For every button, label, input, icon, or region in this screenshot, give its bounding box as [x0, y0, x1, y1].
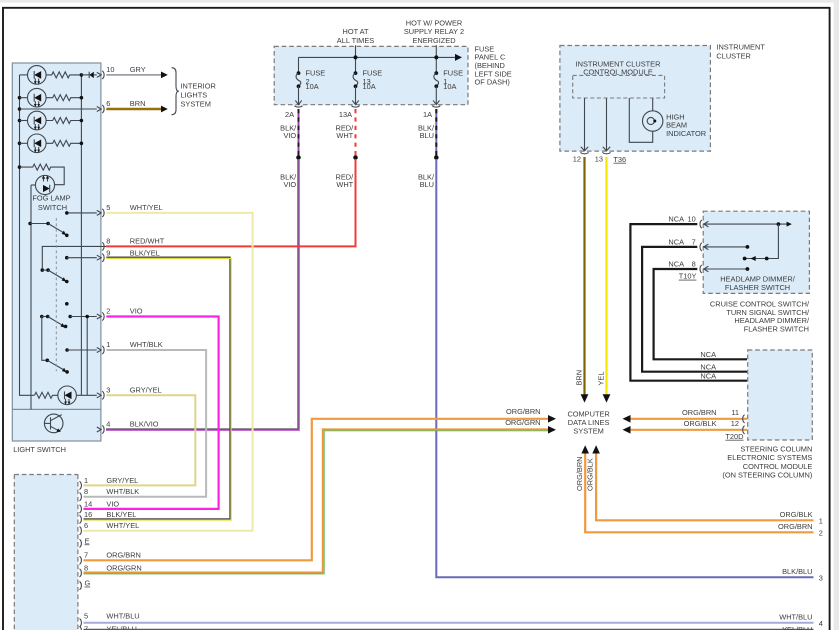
label INSTRUMENT CLUSTER (outside)	[716, 43, 765, 61]
svg-text:WHT/BLK: WHT/BLK	[106, 487, 139, 496]
arrow BRN to interior lights	[161, 106, 168, 113]
svg-text:8: 8	[84, 563, 88, 572]
wire BLK/BLU dashed from fuse 1	[418, 109, 436, 156]
page chrome top strip	[0, 0, 839, 3]
node row1/right rail	[80, 73, 84, 77]
svg-text:CLUSTER: CLUSTER	[716, 52, 751, 61]
connector E	[80, 536, 90, 547]
connector pin 3	[102, 385, 162, 399]
wire YEL from cluster	[597, 157, 611, 403]
wire RED/WHT solid down to light switch pin 8	[106, 159, 356, 246]
svg-text:T36: T36	[613, 155, 626, 164]
fog lamp LED	[31, 175, 55, 194]
wire BLK/VIO solid down to light switch pin 4	[106, 159, 299, 430]
fuse 1 10A	[433, 68, 463, 104]
svg-text:T20D: T20D	[725, 432, 743, 441]
svg-text:5: 5	[84, 612, 88, 621]
connector pin 7 YEL/BLU	[80, 625, 137, 630]
svg-text:BLU: BLU	[420, 180, 434, 189]
svg-text:FLASHER SWITCH: FLASHER SWITCH	[744, 325, 809, 334]
svg-text:16: 16	[84, 510, 92, 519]
resistor R6 pin3 row	[35, 392, 58, 398]
wire BLK/VIO dashed from fuse 2	[280, 109, 298, 156]
svg-text:6: 6	[106, 99, 110, 108]
node rail fog resistor	[18, 165, 22, 169]
junction node bus/fuse13	[354, 55, 358, 59]
svg-text:ENERGIZED: ENERGIZED	[412, 36, 455, 45]
svg-text:VIO: VIO	[283, 131, 296, 140]
connector pin 8 WHT/BLK	[80, 487, 140, 501]
wire ORG/BRN up arrow	[575, 445, 589, 532]
svg-text:BLK/YEL: BLK/YEL	[130, 248, 160, 257]
wire BRN	[106, 108, 161, 111]
svg-text:3: 3	[106, 385, 110, 394]
wire GRY/YEL	[84, 395, 196, 485]
connector pin 9	[102, 248, 160, 261]
connector pin 5 WHT/BLU	[80, 612, 140, 627]
svg-text:NCA: NCA	[700, 362, 716, 371]
wire pin2 row	[68, 314, 101, 319]
svg-text:VIO: VIO	[283, 180, 296, 189]
light switch box	[12, 63, 101, 441]
wire WHT/YEL	[84, 213, 253, 531]
wire cluster pin 13	[603, 98, 610, 151]
connector pin 6	[102, 99, 145, 113]
svg-text:HOT W/ POWER: HOT W/ POWER	[406, 18, 463, 27]
switch SW-B	[41, 268, 69, 283]
svg-text:8: 8	[84, 487, 88, 496]
label HOT W/ POWER SUPPLY RELAY 2 ENERGIZED	[404, 18, 464, 44]
svg-text:NCA: NCA	[700, 371, 716, 380]
switch internals pin8 row	[703, 266, 749, 272]
svg-text:ORG/BRN: ORG/BRN	[575, 457, 584, 492]
illumination LED L2	[20, 88, 47, 107]
svg-text:2: 2	[819, 528, 823, 537]
splice node on BLK/VIO	[296, 155, 301, 160]
svg-text:10: 10	[687, 215, 695, 224]
wire BRN from cluster	[575, 157, 589, 403]
switch SW-A fog	[28, 222, 68, 237]
left rail of light switch	[20, 75, 35, 395]
svg-text:BRN: BRN	[575, 370, 584, 386]
wire ORG/BLK right exit 1	[596, 510, 823, 525]
instrument cluster box	[560, 46, 711, 152]
connector pin 1	[102, 340, 163, 354]
connector pin 8	[102, 236, 165, 250]
wire WHT/BLU	[84, 613, 823, 628]
resistor R4	[46, 140, 81, 146]
wire pin9 row	[65, 255, 101, 260]
svg-text:9: 9	[106, 248, 110, 257]
svg-text:E: E	[85, 536, 90, 545]
svg-text:ORG/BLK: ORG/BLK	[684, 419, 717, 428]
wire ORG/BRN pin 11	[623, 408, 748, 423]
wire WHT/BLK	[84, 350, 207, 497]
svg-text:ORG/BRN: ORG/BRN	[106, 551, 140, 560]
svg-text:YEL: YEL	[597, 372, 606, 386]
connector cluster pin 13 T36	[595, 152, 626, 164]
wire ORG/BLK pin 12	[623, 419, 748, 441]
wire BLK/BLU solid down and right to pin 3	[418, 159, 823, 582]
wire GRY	[106, 74, 161, 76]
svg-text:12: 12	[731, 419, 739, 428]
svg-text:SWITCH: SWITCH	[38, 203, 67, 212]
connector pin 10	[102, 65, 146, 79]
connector pin 7 ORG/BRN	[80, 551, 141, 565]
label headlamp dimmer flasher switch	[720, 274, 796, 292]
svg-text:ORG/BLK: ORG/BLK	[586, 458, 595, 491]
svg-text:FLASHER SWITCH: FLASHER SWITCH	[725, 283, 790, 292]
resistor R3	[46, 118, 81, 124]
switch internals pin7 row	[703, 244, 749, 250]
node rail row4	[18, 142, 22, 146]
label FOG LAMP SWITCH	[32, 194, 70, 212]
label instrument cluster control module	[576, 59, 661, 76]
svg-text:(ON STEERING COLUMN): (ON STEERING COLUMN)	[722, 470, 812, 479]
svg-text:13: 13	[595, 154, 603, 163]
label INTERIOR LIGHTS SYSTEM	[181, 82, 216, 109]
wire NCA pin8 to module	[654, 269, 747, 359]
svg-text:1: 1	[819, 516, 823, 525]
rail x87	[86, 317, 88, 396]
svg-text:VIO: VIO	[130, 307, 143, 316]
svg-text:ORG/BLK: ORG/BLK	[780, 510, 813, 519]
connector pin 1 GRY/YEL	[80, 476, 139, 490]
svg-text:FOG LAMP: FOG LAMP	[32, 194, 70, 203]
svg-text:ORG/BRN: ORG/BRN	[682, 408, 717, 417]
svg-text:NCA: NCA	[668, 215, 684, 224]
svg-text:GRY/YEL: GRY/YEL	[130, 385, 162, 394]
svg-text:BLU: BLU	[420, 131, 434, 140]
label cruise control switch block	[710, 300, 810, 334]
label NCA x3	[700, 350, 716, 380]
label FUSE PANEL C (BEHIND LEFT SIDE OF DASH)	[475, 44, 512, 86]
wire NCA pin10 to module	[630, 224, 747, 381]
splice node on BLK/BLU	[434, 155, 439, 160]
node row2/right rail	[80, 96, 84, 100]
connector pin 4	[102, 420, 159, 434]
steering column module box	[748, 350, 813, 440]
svg-text:WHT/BLK: WHT/BLK	[130, 340, 163, 349]
svg-text:LIGHT SWITCH: LIGHT SWITCH	[13, 445, 66, 454]
node row3/right rail	[80, 119, 84, 123]
wire RED/WHT dashed from fuse 13	[336, 109, 356, 156]
connector pin 6 WHT/YEL	[80, 521, 140, 535]
switch SW-C	[40, 315, 67, 329]
node rail row2	[18, 96, 22, 100]
brace interior lights system	[172, 68, 179, 115]
svg-text:VIO: VIO	[106, 499, 119, 508]
wire NCA pin7 to module	[642, 247, 747, 372]
svg-text:2: 2	[106, 307, 110, 316]
svg-text:11: 11	[731, 408, 739, 417]
svg-text:1: 1	[106, 340, 110, 349]
connector dimmer pin 8 T10Y	[668, 259, 702, 280]
wire BLK/YEL	[84, 257, 232, 520]
svg-text:4: 4	[819, 619, 823, 628]
svg-text:1: 1	[84, 476, 88, 485]
diode D1	[81, 72, 101, 78]
bottom-left module box	[14, 475, 78, 630]
resistor R1	[46, 72, 81, 78]
label computer data lines system	[567, 409, 609, 435]
svg-text:WHT/YEL: WHT/YEL	[106, 521, 139, 530]
svg-text:1A: 1A	[423, 110, 432, 119]
node contact mid	[65, 302, 69, 306]
junction node bus/fuse1	[434, 55, 438, 59]
node rail row3	[18, 119, 22, 123]
svg-text:HEADLAMP DIMMER/: HEADLAMP DIMMER/	[720, 274, 796, 283]
svg-text:12: 12	[573, 154, 581, 163]
fuse 13 10A	[352, 68, 382, 104]
headlamp dimmer flasher switch box	[703, 211, 809, 293]
svg-text:YEL/BLU: YEL/BLU	[782, 625, 812, 630]
svg-text:ORG/GRN: ORG/GRN	[106, 563, 141, 572]
svg-text:INSTRUMENT: INSTRUMENT	[716, 43, 765, 52]
svg-text:ORG/BRN: ORG/BRN	[506, 407, 541, 416]
svg-text:LIGHTS: LIGHTS	[181, 91, 208, 100]
label HOT AT ALL TIMES	[337, 27, 374, 45]
svg-text:2A: 2A	[285, 110, 294, 119]
connector pin 8 ORG/GRN	[80, 563, 142, 577]
wire YEL/BLU	[84, 625, 814, 630]
svg-text:SYSTEM: SYSTEM	[573, 426, 603, 435]
bus wire inside fuse panel with arrow to FUSE PANEL C	[299, 54, 463, 73]
svg-text:10A: 10A	[306, 82, 319, 91]
connector 2A	[295, 106, 303, 107]
svg-text:8: 8	[692, 259, 696, 268]
wire feed from HOT W/ POWER SUPPLY RELAY 2	[435, 45, 437, 73]
svg-text:10A: 10A	[363, 82, 376, 91]
page chrome right strip	[834, 0, 839, 630]
svg-text:BLK/BLU: BLK/BLU	[782, 567, 812, 576]
svg-text:OF DASH): OF DASH)	[475, 78, 510, 87]
svg-text:4: 4	[106, 420, 110, 429]
svg-text:13A: 13A	[339, 110, 352, 119]
pin4 arrow inside	[97, 427, 101, 432]
svg-text:ORG/BRN: ORG/BRN	[778, 522, 813, 531]
wire cluster pin 12	[581, 98, 588, 151]
rheostat LED L5	[58, 386, 101, 405]
svg-text:WHT/YEL: WHT/YEL	[130, 203, 163, 212]
connector dimmer pin 7	[668, 237, 702, 251]
wire pin6 row	[20, 107, 102, 112]
svg-text:INTERIOR: INTERIOR	[181, 82, 216, 91]
control module inner box	[573, 75, 665, 98]
label HIGH BEAM INDICATOR	[666, 112, 706, 138]
connector dimmer pin 10	[668, 215, 702, 229]
svg-text:SYSTEM: SYSTEM	[181, 100, 211, 109]
rail to switch SW-D	[42, 317, 48, 361]
svg-text:WHT/BLU: WHT/BLU	[106, 612, 139, 621]
connector 13A	[352, 106, 360, 107]
svg-text:5: 5	[106, 203, 110, 212]
resistor R2	[46, 95, 81, 101]
right rail of light switch	[80, 75, 82, 395]
svg-text:WHT: WHT	[336, 180, 353, 189]
connector 1A	[432, 106, 440, 107]
svg-text:G: G	[85, 579, 91, 588]
wire ORG/GRN to computer data lines	[84, 418, 557, 574]
svg-text:BLK/YEL: BLK/YEL	[106, 510, 136, 519]
svg-text:GRY/YEL: GRY/YEL	[106, 476, 138, 485]
wire pin1 row	[65, 348, 101, 353]
arrow GRY to interior lights	[161, 72, 168, 79]
svg-text:10: 10	[106, 65, 114, 74]
connector pin 5	[102, 203, 162, 217]
label steering column module	[722, 445, 812, 480]
wire fog rail down	[30, 185, 32, 409]
svg-text:T10Y: T10Y	[679, 272, 697, 281]
fuse 2 10A	[295, 68, 325, 104]
resistor R5 fog lamp	[20, 164, 65, 185]
wire ORG/BRN right exit 2	[585, 522, 823, 537]
svg-text:14: 14	[84, 499, 92, 508]
fuse panel C box	[274, 46, 468, 104]
illumination LED L3	[20, 111, 47, 130]
svg-text:7: 7	[84, 551, 88, 560]
connector cluster pin 12	[573, 152, 589, 163]
wire ORG/BRN to computer data lines	[84, 407, 557, 561]
svg-text:WHT: WHT	[336, 131, 353, 140]
svg-text:NCA: NCA	[668, 237, 684, 246]
mechanical linkage dashed	[55, 218, 57, 371]
connector pin 14 VIO	[80, 499, 120, 513]
node row4/right rail	[80, 142, 84, 146]
wire VIO	[84, 317, 219, 509]
high beam indicator lamp	[629, 98, 663, 142]
svg-text:RED/WHT: RED/WHT	[130, 236, 165, 245]
svg-text:ALL TIMES: ALL TIMES	[337, 36, 374, 45]
connector pin 2	[102, 307, 143, 321]
svg-text:NCA: NCA	[668, 259, 684, 268]
illumination LED L4	[20, 134, 47, 153]
wire pin5 row	[65, 210, 101, 215]
svg-text:NCA: NCA	[700, 350, 716, 359]
svg-text:7: 7	[692, 237, 696, 246]
svg-text:ORG/GRN: ORG/GRN	[505, 418, 540, 427]
svg-text:INDICATOR: INDICATOR	[666, 129, 706, 138]
svg-text:6: 6	[84, 521, 88, 530]
connector G	[80, 579, 91, 590]
wire pin8 inside	[42, 246, 106, 270]
transistor Q1	[44, 414, 63, 433]
wire ORG/BLK up arrow	[586, 445, 600, 520]
switch internals wiper	[743, 224, 779, 261]
svg-text:10A: 10A	[443, 82, 456, 91]
svg-text:BRN: BRN	[130, 99, 146, 108]
svg-text:8: 8	[106, 236, 110, 245]
wire feed from HOT AT ALL TIMES	[355, 45, 357, 73]
connector pin 16 BLK/YEL	[80, 510, 137, 524]
svg-text:3: 3	[819, 573, 823, 582]
splice node on RED/WHT	[353, 155, 358, 160]
illumination LED L1	[20, 66, 47, 85]
node rail row6	[18, 107, 22, 111]
switch SW-D	[46, 359, 69, 374]
switch internals pin10 row	[703, 221, 792, 227]
svg-text:BLK/VIO: BLK/VIO	[130, 420, 159, 429]
svg-text:GRY: GRY	[130, 65, 146, 74]
svg-text:WHT/BLU: WHT/BLU	[779, 613, 812, 622]
